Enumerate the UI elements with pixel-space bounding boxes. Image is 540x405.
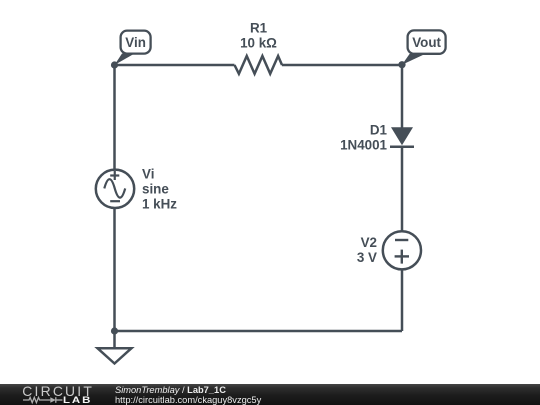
svg-text:1 kHz: 1 kHz (142, 197, 177, 212)
svg-text:D1: D1 (370, 123, 388, 138)
svg-text:V2: V2 (361, 235, 377, 250)
svg-text:sine: sine (142, 182, 169, 197)
svg-text:Vout: Vout (412, 35, 441, 50)
svg-text:10 kΩ: 10 kΩ (240, 36, 277, 51)
svg-text:3 V: 3 V (357, 250, 377, 265)
svg-text:Vin: Vin (125, 35, 146, 50)
svg-text:Vi: Vi (142, 167, 154, 182)
svg-text:1N4001: 1N4001 (340, 138, 387, 153)
svg-text:R1: R1 (250, 21, 268, 36)
